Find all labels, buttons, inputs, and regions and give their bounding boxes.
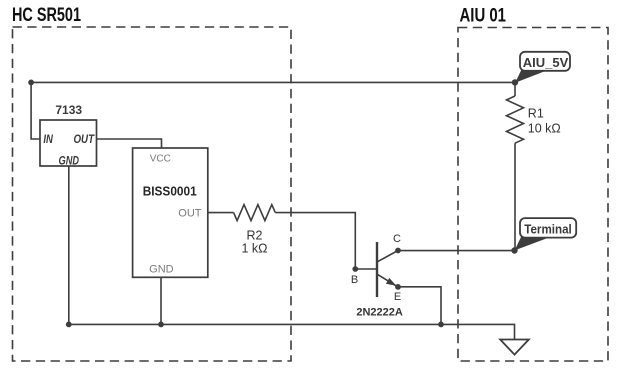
svg-text:AIU 01: AIU 01 [460,6,507,27]
svg-text:GND: GND [59,156,80,168]
svg-text:HC SR501: HC SR501 [12,5,81,26]
svg-text:B: B [351,274,358,286]
svg-text:2N2222A: 2N2222A [356,307,403,319]
svg-text:AIU_5V: AIU_5V [523,55,569,70]
svg-text:7133: 7133 [55,103,82,117]
svg-text:1 kΩ: 1 kΩ [241,242,267,256]
svg-text:IN: IN [43,134,53,146]
svg-text:E: E [394,291,401,303]
svg-text:VCC: VCC [150,154,171,165]
svg-text:OUT: OUT [74,134,95,146]
svg-text:R1: R1 [528,107,544,121]
svg-text:BISS0001: BISS0001 [143,184,197,199]
svg-text:C: C [393,233,401,245]
svg-text:Terminal: Terminal [524,223,572,237]
svg-text:GND: GND [149,264,174,276]
svg-text:OUT: OUT [178,207,202,219]
svg-text:R2: R2 [247,229,263,243]
svg-text:10 kΩ: 10 kΩ [528,122,561,136]
